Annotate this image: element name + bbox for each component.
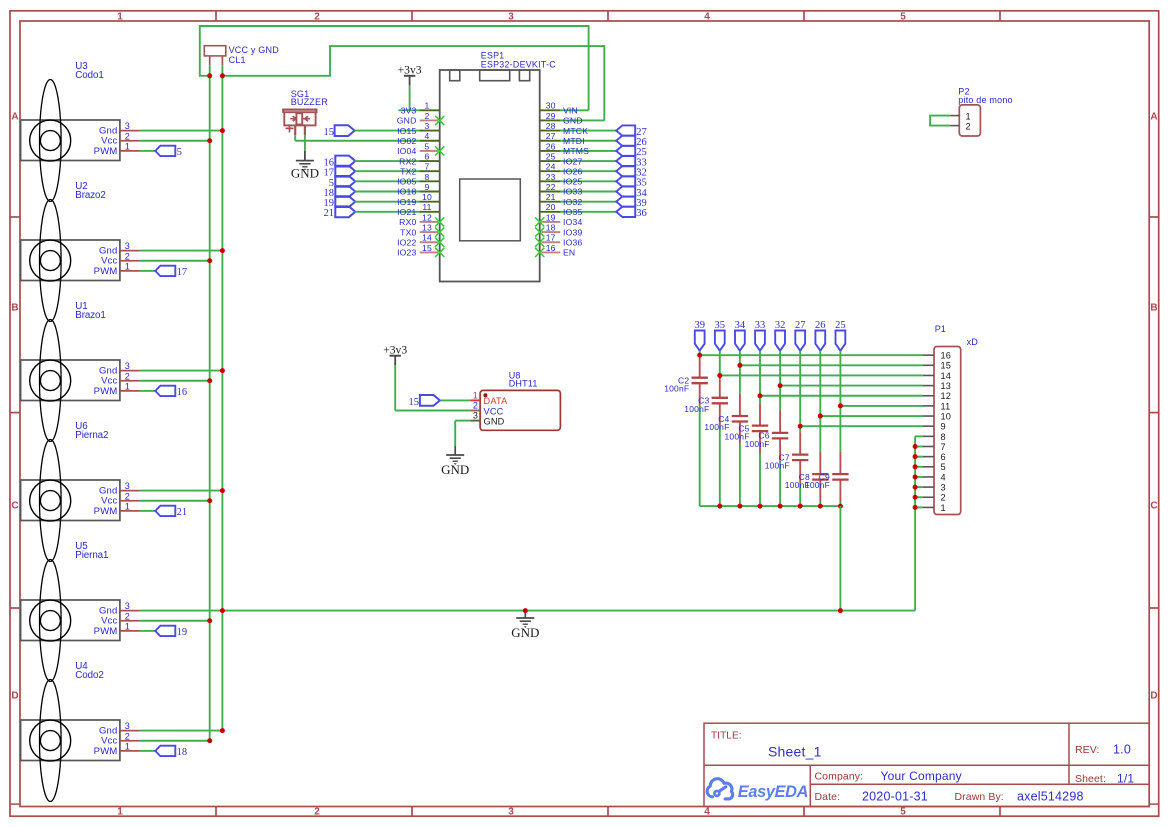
svg-text:IO35: IO35 bbox=[563, 207, 582, 217]
svg-text:8: 8 bbox=[941, 432, 946, 442]
svg-text:IO27: IO27 bbox=[563, 156, 582, 166]
svg-text:25: 25 bbox=[546, 151, 556, 161]
svg-text:36: 36 bbox=[636, 208, 647, 219]
svg-text:2020-01-31: 2020-01-31 bbox=[862, 790, 928, 804]
svg-text:VIN: VIN bbox=[563, 106, 578, 116]
svg-text:5: 5 bbox=[900, 807, 906, 818]
svg-text:100nF: 100nF bbox=[664, 384, 689, 394]
svg-text:C: C bbox=[1150, 501, 1157, 512]
svg-text:Pierna2: Pierna2 bbox=[75, 430, 108, 441]
svg-text:Pierna1: Pierna1 bbox=[75, 550, 108, 561]
svg-text:PWM: PWM bbox=[94, 746, 118, 757]
svg-text:EasyEDA: EasyEDA bbox=[738, 783, 808, 801]
svg-text:2: 2 bbox=[314, 807, 320, 818]
svg-text:xD: xD bbox=[967, 337, 979, 347]
svg-text:MTMS: MTMS bbox=[563, 146, 589, 156]
svg-text:IO05: IO05 bbox=[397, 177, 416, 187]
svg-text:1: 1 bbox=[117, 11, 123, 22]
svg-text:7: 7 bbox=[941, 442, 946, 452]
svg-text:axel514298: axel514298 bbox=[1017, 790, 1084, 804]
svg-text:MTDI: MTDI bbox=[563, 136, 585, 146]
svg-text:8: 8 bbox=[425, 172, 430, 182]
svg-text:GND: GND bbox=[563, 116, 583, 126]
svg-text:C: C bbox=[11, 501, 18, 512]
svg-text:15: 15 bbox=[941, 361, 952, 371]
svg-text:6: 6 bbox=[425, 151, 430, 161]
svg-text:10: 10 bbox=[422, 192, 432, 202]
svg-text:9: 9 bbox=[941, 422, 946, 432]
svg-text:2: 2 bbox=[314, 11, 320, 22]
svg-text:pito de mono: pito de mono bbox=[958, 95, 1012, 105]
svg-text:MTCK: MTCK bbox=[563, 126, 588, 136]
svg-text:26: 26 bbox=[546, 141, 556, 151]
svg-text:Your Company: Your Company bbox=[881, 769, 962, 783]
svg-text:5: 5 bbox=[425, 141, 430, 151]
svg-text:1.0: 1.0 bbox=[1113, 743, 1131, 757]
svg-text:D: D bbox=[1150, 691, 1157, 702]
svg-text:GND: GND bbox=[397, 116, 417, 126]
svg-text:IO39: IO39 bbox=[563, 227, 582, 237]
svg-text:6: 6 bbox=[941, 452, 946, 462]
svg-text:26: 26 bbox=[815, 320, 826, 331]
svg-text:+3v3: +3v3 bbox=[383, 344, 407, 357]
svg-text:4: 4 bbox=[425, 131, 430, 141]
svg-text:3V3: 3V3 bbox=[401, 106, 417, 116]
svg-text:11: 11 bbox=[941, 401, 951, 411]
svg-text:TX2: TX2 bbox=[400, 166, 416, 176]
svg-text:IO19: IO19 bbox=[397, 197, 416, 207]
svg-text:2: 2 bbox=[966, 121, 971, 131]
svg-text:33: 33 bbox=[755, 320, 766, 331]
svg-text:IO25: IO25 bbox=[563, 177, 582, 187]
svg-text:12: 12 bbox=[422, 212, 432, 222]
svg-text:Company:: Company: bbox=[815, 771, 864, 783]
svg-text:2: 2 bbox=[425, 111, 430, 121]
svg-text:16: 16 bbox=[941, 351, 952, 361]
svg-text:D: D bbox=[11, 691, 18, 702]
svg-text:A: A bbox=[11, 112, 18, 123]
svg-text:100nF: 100nF bbox=[684, 404, 709, 414]
svg-text:A: A bbox=[1150, 112, 1157, 123]
svg-text:IO26: IO26 bbox=[563, 166, 582, 176]
svg-text:TITLE:: TITLE: bbox=[711, 731, 742, 742]
svg-text:PWM: PWM bbox=[94, 506, 118, 517]
svg-text:EN: EN bbox=[563, 248, 575, 258]
svg-text:IO34: IO34 bbox=[563, 217, 582, 227]
svg-text:5: 5 bbox=[941, 462, 946, 472]
svg-text:IO15: IO15 bbox=[397, 126, 416, 136]
svg-text:1: 1 bbox=[425, 101, 430, 111]
svg-text:IO18: IO18 bbox=[397, 187, 416, 197]
svg-text:12: 12 bbox=[941, 391, 952, 401]
svg-text:GND: GND bbox=[484, 416, 505, 426]
svg-text:13: 13 bbox=[941, 381, 952, 391]
svg-text:IO32: IO32 bbox=[563, 197, 582, 207]
svg-text:27: 27 bbox=[546, 131, 556, 141]
svg-text:3: 3 bbox=[425, 121, 430, 131]
svg-text:7: 7 bbox=[425, 162, 430, 172]
svg-text:100nF: 100nF bbox=[805, 480, 830, 490]
svg-text:1: 1 bbox=[473, 390, 478, 400]
svg-text:CL1: CL1 bbox=[229, 55, 246, 65]
svg-text:3: 3 bbox=[941, 483, 946, 493]
svg-text:14: 14 bbox=[422, 233, 432, 243]
svg-text:100nF: 100nF bbox=[704, 422, 729, 432]
svg-text:3: 3 bbox=[508, 11, 514, 22]
svg-text:5: 5 bbox=[177, 147, 182, 158]
svg-text:DATA: DATA bbox=[484, 396, 509, 406]
svg-text:19: 19 bbox=[177, 627, 188, 638]
svg-text:GND: GND bbox=[441, 462, 469, 477]
svg-text:2: 2 bbox=[941, 493, 946, 503]
svg-text:11: 11 bbox=[422, 202, 431, 212]
svg-text:IO21: IO21 bbox=[397, 207, 416, 217]
svg-text:15: 15 bbox=[422, 243, 432, 253]
svg-text:34: 34 bbox=[735, 320, 746, 331]
svg-text:25: 25 bbox=[835, 320, 846, 331]
svg-text:13: 13 bbox=[422, 223, 432, 233]
svg-text:21: 21 bbox=[177, 507, 188, 518]
svg-text:B: B bbox=[1150, 303, 1157, 314]
svg-text:GND: GND bbox=[511, 625, 539, 640]
svg-text:Brazo1: Brazo1 bbox=[75, 310, 105, 321]
svg-text:5: 5 bbox=[900, 11, 906, 22]
svg-text:GND: GND bbox=[291, 165, 319, 180]
svg-text:17: 17 bbox=[546, 233, 556, 243]
svg-text:29: 29 bbox=[546, 111, 556, 121]
svg-text:17: 17 bbox=[177, 267, 188, 278]
svg-text:Sheet_1: Sheet_1 bbox=[768, 744, 822, 760]
svg-text:Codo1: Codo1 bbox=[75, 70, 103, 81]
svg-text:3: 3 bbox=[125, 241, 130, 251]
svg-text:BUZZER: BUZZER bbox=[291, 97, 329, 107]
svg-text:ESP32-DEVKIT-C: ESP32-DEVKIT-C bbox=[481, 59, 556, 69]
svg-text:RX2: RX2 bbox=[399, 156, 416, 166]
svg-text:4: 4 bbox=[704, 11, 710, 22]
svg-text:100nF: 100nF bbox=[765, 461, 790, 471]
svg-text:Drawn By:: Drawn By: bbox=[955, 791, 1004, 803]
svg-text:PWM: PWM bbox=[94, 626, 118, 637]
svg-text:IO04: IO04 bbox=[397, 146, 416, 156]
svg-text:1: 1 bbox=[941, 503, 946, 513]
svg-text:Codo2: Codo2 bbox=[75, 670, 103, 681]
svg-text:VCC y GND: VCC y GND bbox=[229, 45, 280, 55]
svg-text:B: B bbox=[11, 303, 18, 314]
svg-text:Date:: Date: bbox=[815, 791, 841, 803]
svg-text:IO02: IO02 bbox=[397, 136, 416, 146]
svg-text:TX0: TX0 bbox=[400, 227, 416, 237]
svg-text:P1: P1 bbox=[935, 324, 946, 334]
svg-text:4: 4 bbox=[941, 472, 946, 482]
svg-text:3: 3 bbox=[473, 411, 478, 421]
svg-text:32: 32 bbox=[775, 320, 786, 331]
svg-text:22: 22 bbox=[546, 182, 556, 192]
svg-text:28: 28 bbox=[546, 121, 556, 131]
svg-text:DHT11: DHT11 bbox=[509, 379, 538, 389]
svg-text:4: 4 bbox=[704, 807, 710, 818]
svg-text:16: 16 bbox=[177, 387, 188, 398]
svg-text:PWM: PWM bbox=[94, 266, 118, 277]
svg-text:27: 27 bbox=[795, 320, 806, 331]
svg-text:30: 30 bbox=[546, 101, 556, 111]
svg-text:15: 15 bbox=[409, 397, 420, 408]
svg-text:18: 18 bbox=[177, 747, 188, 758]
svg-text:10: 10 bbox=[941, 411, 952, 421]
svg-text:1/1: 1/1 bbox=[1117, 772, 1134, 786]
svg-text:35: 35 bbox=[715, 320, 726, 331]
svg-text:Sheet:: Sheet: bbox=[1075, 773, 1106, 785]
svg-text:1: 1 bbox=[117, 807, 123, 818]
svg-text:Brazo2: Brazo2 bbox=[75, 190, 105, 201]
svg-text:23: 23 bbox=[546, 172, 556, 182]
svg-text:14: 14 bbox=[941, 371, 952, 381]
svg-text:16: 16 bbox=[546, 243, 556, 253]
svg-text:RX0: RX0 bbox=[399, 217, 416, 227]
svg-text:15: 15 bbox=[324, 127, 335, 138]
svg-text:3: 3 bbox=[508, 807, 514, 818]
svg-text:IO36: IO36 bbox=[563, 237, 582, 247]
svg-text:2: 2 bbox=[473, 401, 478, 411]
svg-text:21: 21 bbox=[546, 192, 556, 202]
svg-text:REV:: REV: bbox=[1075, 744, 1100, 756]
svg-text:IO23: IO23 bbox=[397, 248, 416, 258]
svg-text:IO33: IO33 bbox=[563, 187, 582, 197]
svg-text:39: 39 bbox=[694, 320, 705, 331]
svg-text:19: 19 bbox=[546, 212, 556, 222]
svg-text:PWM: PWM bbox=[94, 146, 118, 157]
svg-text:IO22: IO22 bbox=[397, 237, 416, 247]
svg-text:VCC: VCC bbox=[484, 406, 504, 416]
svg-text:21: 21 bbox=[324, 208, 335, 219]
svg-text:9: 9 bbox=[425, 182, 430, 192]
svg-text:3: 3 bbox=[125, 121, 130, 131]
svg-text:PWM: PWM bbox=[94, 386, 118, 397]
svg-text:18: 18 bbox=[546, 223, 556, 233]
svg-text:+3v3: +3v3 bbox=[398, 64, 422, 77]
svg-text:20: 20 bbox=[546, 202, 556, 212]
svg-text:24: 24 bbox=[546, 162, 556, 172]
svg-text:100nF: 100nF bbox=[745, 439, 770, 449]
svg-text:1: 1 bbox=[966, 111, 971, 121]
